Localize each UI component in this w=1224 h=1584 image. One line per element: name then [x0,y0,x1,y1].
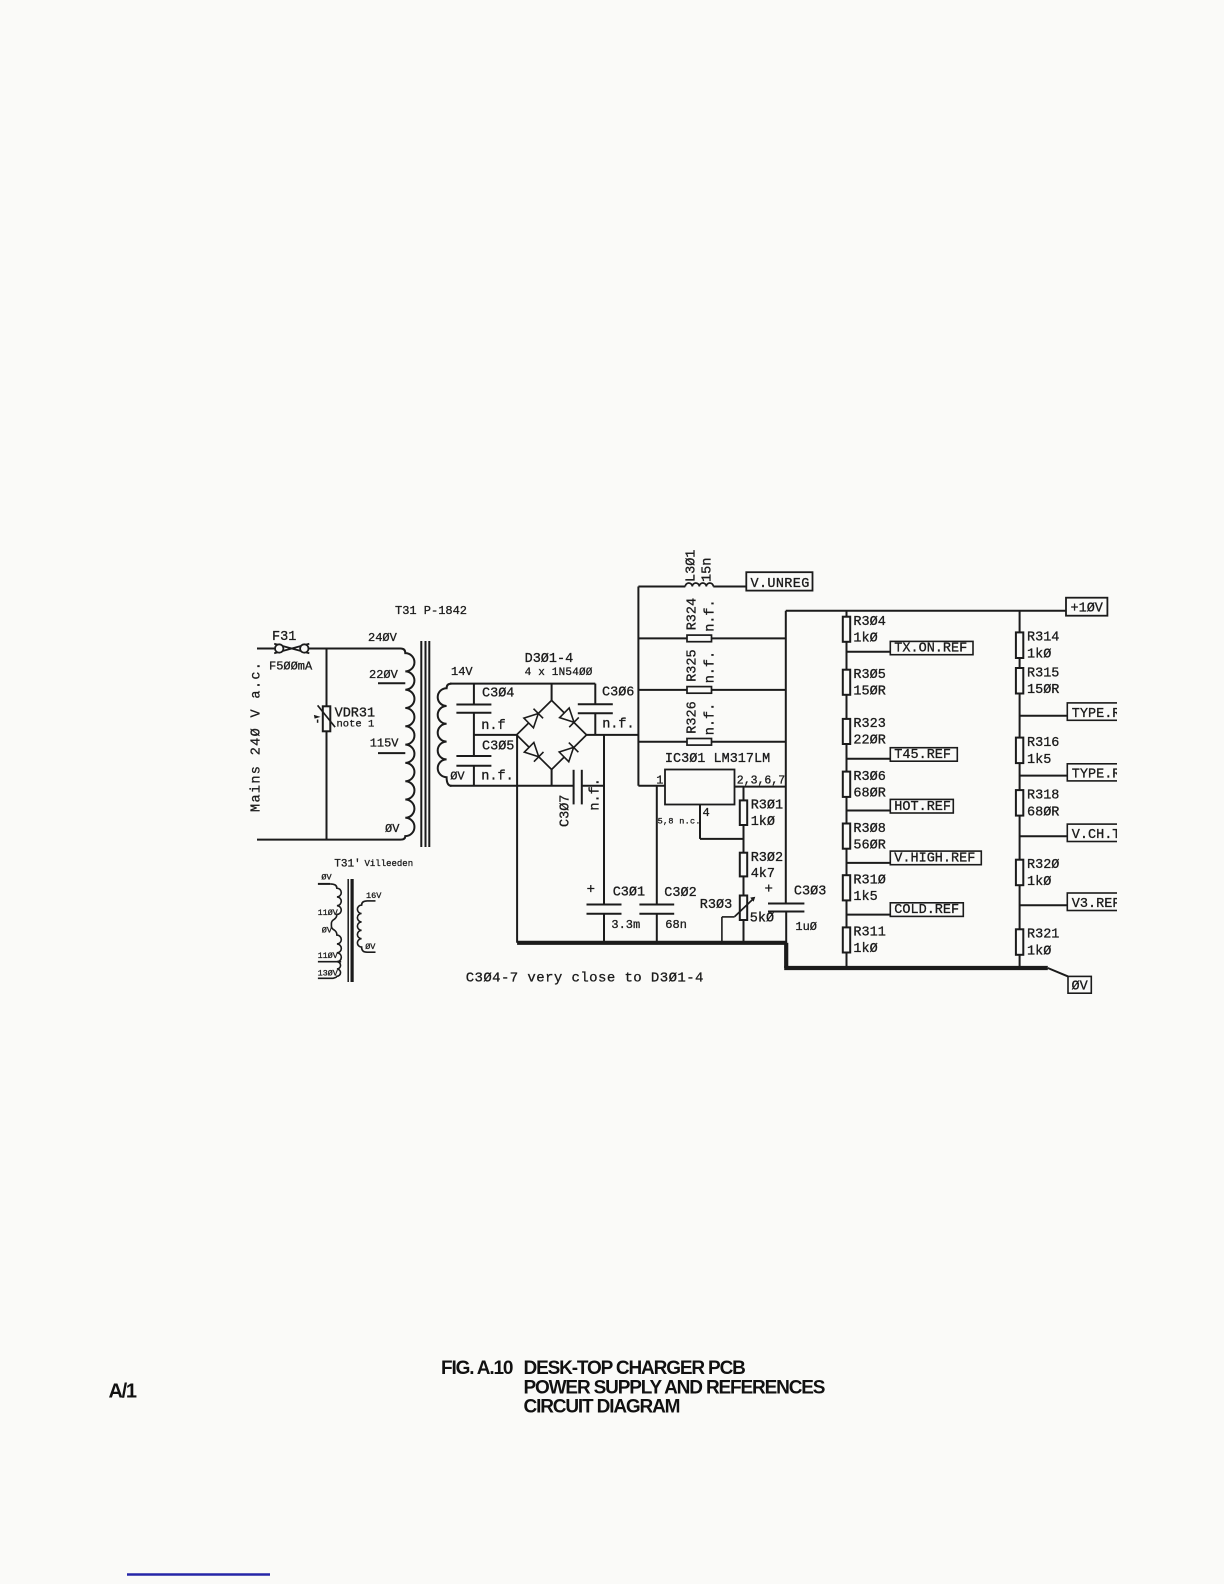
svg-text:+: + [587,882,595,898]
svg-text:D3Ø1-4: D3Ø1-4 [525,652,574,667]
svg-text:1kØ: 1kØ [1027,945,1051,960]
svg-text:n.f.: n.f. [704,599,719,631]
wire C304 branch top [473,684,475,705]
resistor R320 [1016,860,1023,886]
wire VDR branch top [326,649,328,707]
wire to R304 [846,611,848,617]
svg-text:1kØ: 1kØ [751,815,775,830]
wire mid junction to bridge [474,734,517,736]
svg-text:R3Ø2: R3Ø2 [751,851,783,866]
wire tap V.HIGH.REF [847,862,891,864]
svg-text:1kØ: 1kØ [853,632,877,647]
wire ground diagonal [1048,968,1068,976]
svg-text:R3Ø1: R3Ø1 [751,799,783,814]
wire tap T45.REF [847,758,891,760]
wire bridge bottom stub [551,770,553,786]
svg-text:T31 P-1842: T31 P-1842 [395,604,467,618]
wire 0V rail [450,785,574,787]
svg-text:ØV: ØV [385,822,400,836]
svg-text:C3Ø5: C3Ø5 [482,740,514,755]
wire tap V.CH.TYPE tap [1020,835,1068,837]
wire to R310 [846,849,848,876]
svg-text:ØV: ØV [450,770,465,784]
wire R311 bottom [846,953,848,969]
node V.HIGH.REF box [890,851,981,865]
svg-text:11ØV: 11ØV [318,951,338,961]
svg-text:1kØ: 1kØ [853,942,877,957]
svg-text:ØV: ØV [321,873,332,883]
svg-text:R315: R315 [1027,666,1059,681]
svg-text:1k5: 1k5 [1027,753,1051,768]
svg-text:R31Ø: R31Ø [853,874,885,889]
wire to R323 [846,695,848,719]
svg-text:A/1: A/1 [109,1381,137,1403]
wire row R324 right [712,637,786,639]
wire C302 branch [656,786,658,905]
svg-text:13ØV: 13ØV [318,968,338,978]
svg-text:L3Ø1: L3Ø1 [685,550,700,582]
node COLD.REF box [890,903,963,917]
resistor R308 [843,824,850,849]
resistor R325 [687,687,712,694]
svg-text:ØV: ØV [1072,980,1089,995]
capacitor C304 [456,704,491,706]
resistor R326 [687,739,712,746]
svg-text:1: 1 [656,774,663,788]
node TYPE.REF tap 2 box [1067,764,1126,781]
svg-text:F31: F31 [272,630,296,645]
transformer T31 core [420,641,422,847]
capacitor C303 [768,903,804,905]
potentiometer R303 [740,896,747,921]
resistor R323 [843,719,850,744]
svg-text:FIG. A.10: FIG. A.10 [441,1358,513,1379]
wire mains live stub [257,648,275,650]
svg-text:1uØ: 1uØ [795,920,817,934]
wire to R321 [1019,885,1021,929]
svg-text:R3Ø8: R3Ø8 [853,822,885,837]
svg-text:R3Ø4: R3Ø4 [853,615,885,630]
svg-text:T45.REF: T45.REF [894,748,951,763]
svg-text:POWER SUPPLY AND REFERENCES: POWER SUPPLY AND REFERENCES [524,1377,825,1398]
node V.UNREG box [746,572,812,590]
wire unreg vertical [637,587,639,786]
op-amp U IC301 box [665,770,735,805]
svg-text:C3Ø4-7 very close to D3Ø1-4: C3Ø4-7 very close to D3Ø1-4 [466,971,704,987]
wire row R324 left [638,637,687,639]
svg-text:4 x 1N54ØØ: 4 x 1N54ØØ [525,667,593,679]
wire C304-C305 [473,713,475,756]
wire +10V top [786,610,1066,612]
wire to R308 [846,797,848,824]
svg-text:R325: R325 [686,649,701,681]
capacitor C301 [587,904,622,906]
node HOT.REF box [890,799,953,813]
wire to R305 [846,642,848,670]
page crop margin right [1117,0,1224,1584]
wire VDR branch bottom [326,731,328,839]
wire to R318 [1019,763,1021,790]
resistor R315 [1016,668,1023,694]
svg-text:C3Ø1: C3Ø1 [613,886,645,901]
resistor R321 [1016,929,1023,955]
capacitor C302 [639,904,674,906]
wire C301 branch [603,904,605,906]
resistor R301 [740,800,747,825]
wire 115V tap [378,752,405,754]
wire pin1 [638,785,665,787]
svg-text:24ØV: 24ØV [368,631,398,645]
resistor R305 [843,670,850,695]
node V3.REF tap box [1067,893,1126,911]
wire to R320 [1019,816,1021,860]
resistor R310 [843,875,850,900]
wire 14V rail [450,683,595,685]
svg-text:n.f.: n.f. [602,718,634,733]
svg-text:15n: 15n [701,558,716,582]
inductor L301 [638,586,685,588]
wire ground elbow [784,943,788,968]
svg-text:R314: R314 [1027,631,1059,646]
wire R302-R303 [743,876,745,895]
wire tap V3.REF tap [1020,904,1068,906]
transformer T31p core [347,879,349,982]
wire row R326 left [638,741,687,743]
wire to R316 [1019,694,1021,738]
wire R303 bottom [743,920,745,943]
wire 220V tap [378,682,405,684]
wire to R314 [1019,611,1021,633]
svg-text:C3Ø6: C3Ø6 [602,686,634,701]
svg-text:16V: 16V [366,891,382,901]
wire to R311 [846,900,848,927]
svg-text:R321: R321 [1027,928,1059,943]
wire positive node vertical [603,735,605,905]
wire tap HOT.REF [847,810,891,812]
wire row R326 right [712,741,786,743]
svg-text:C3Ø2: C3Ø2 [664,886,696,901]
resistor R314 [1016,632,1023,658]
wire tap TYPE.REF tap 1 [1020,715,1068,717]
wire pin4 stub [699,805,701,839]
transformer T31 primary winding [401,649,415,840]
wire C305 bottom [473,766,475,786]
svg-text:3.3m: 3.3m [611,918,640,932]
diode D303 (bridge bottom-left) [524,742,543,761]
wire tap TX.ON.REF [847,651,891,653]
resistor R316 [1016,738,1023,764]
svg-text:n.f.: n.f. [704,651,719,683]
transformer T31p right winding [367,900,376,902]
svg-text:R316: R316 [1027,736,1059,751]
node TYPE.REF tap 1 box [1067,703,1126,720]
svg-text:5,8 n.c.: 5,8 n.c. [658,816,701,826]
svg-text:R311: R311 [853,926,885,941]
node V.CH.TYPE tap box [1067,824,1126,841]
svg-text:Villeeden: Villeeden [365,859,414,869]
svg-text:22ØV: 22ØV [369,668,399,682]
svg-text:14V: 14V [451,665,473,679]
svg-text:CIRCUIT DIAGRAM: CIRCUIT DIAGRAM [524,1397,680,1418]
wire bridge top stub [551,684,553,701]
wire +10V vertical [785,611,787,904]
diode D302 (bridge top-right) [560,708,579,727]
svg-text:R323: R323 [853,717,885,732]
wire row R325 left [638,689,687,691]
svg-text:R318: R318 [1027,788,1059,803]
wire ground rail upper [517,941,787,945]
svg-text:COLD.REF: COLD.REF [894,903,959,918]
svg-text:note 1: note 1 [337,719,375,731]
svg-text:n.f.: n.f. [481,770,513,785]
resistor R304 [843,617,850,642]
wire ground left vertical [516,735,518,943]
wire mains neutral [257,839,401,841]
svg-text:C3Ø7: C3Ø7 [559,795,574,827]
node 0V box [1068,976,1091,993]
diode D301 (bridge top-left) [524,709,543,728]
wire C307 to node [582,785,604,787]
svg-text:ØV: ØV [365,942,376,952]
svg-text:68n: 68n [665,918,687,932]
svg-text:Mains 24Ø V a.c.: Mains 24Ø V a.c. [250,661,265,812]
transformer T31 secondary winding [438,684,452,786]
svg-text:C3Ø4: C3Ø4 [482,686,514,701]
svg-text:15ØR: 15ØR [853,685,885,700]
wire to R315 [1019,658,1021,668]
wire ground rail lower [784,966,1048,970]
svg-text:68ØR: 68ØR [1027,805,1059,820]
svg-text:ØV: ØV [322,925,333,935]
wire row R325 right [712,689,786,691]
svg-text:4: 4 [703,806,710,820]
resistor R302 [740,853,747,877]
svg-text:V.HIGH.REF: V.HIGH.REF [894,852,975,867]
svg-text:n.f: n.f [481,719,505,734]
svg-text:F5ØØmA: F5ØØmA [269,660,313,674]
svg-text:HOT.REF: HOT.REF [894,800,951,815]
svg-text:R3Ø5: R3Ø5 [853,668,885,683]
svg-text:R3Ø6: R3Ø6 [853,770,885,785]
wire to R306 [846,744,848,772]
wire R301 top [743,787,745,801]
svg-text:V.UNREG: V.UNREG [751,577,810,592]
svg-text:DESK-TOP CHARGER PCB: DESK-TOP CHARGER PCB [524,1358,746,1379]
svg-text:1kØ: 1kØ [1027,648,1051,663]
diode bridge D301-4 diamond [517,700,552,735]
wire bridge right corner [587,734,639,736]
svg-text:T31': T31' [334,858,360,870]
svg-text:11ØV: 11ØV [318,908,338,918]
node TX.ON.REF box [890,641,973,654]
wire tap COLD.REF [847,914,891,916]
resistor R318 [1016,790,1023,816]
node +10V box [1066,598,1107,616]
svg-text:22ØR: 22ØR [853,734,885,749]
svg-text:2,3,6,7: 2,3,6,7 [737,774,785,787]
capacitor C305 [456,755,491,757]
svg-text:TX.ON.REF: TX.ON.REF [894,642,967,657]
wire fuse to transformer [309,648,401,650]
varistor VDR31 [323,706,331,731]
mark blue underline [127,1573,270,1575]
svg-text:5kØ: 5kØ [750,912,774,927]
resistor R324 [687,635,712,642]
svg-text:IC3Ø1 LM317LM: IC3Ø1 LM317LM [665,752,770,767]
wire tap TYPE.REF tap 2 [1020,775,1068,777]
svg-text:115V: 115V [370,737,400,751]
svg-text:4k7: 4k7 [751,867,775,882]
wire R301-R302 [743,825,745,853]
svg-text:C3Ø3: C3Ø3 [794,885,826,900]
svg-text:R32Ø: R32Ø [1027,858,1059,873]
fuse F31 [274,644,309,653]
resistor R306 [843,772,850,797]
svg-text:+1ØV: +1ØV [1071,602,1104,617]
svg-text:1k5: 1k5 [853,890,877,905]
svg-text:56ØR: 56ØR [853,838,885,853]
capacitor C306 [594,684,596,705]
svg-text:+: + [765,882,773,898]
transformer T31p left winding [318,883,330,885]
svg-text:n.f.: n.f. [589,778,604,810]
svg-text:R326: R326 [686,701,701,733]
svg-text:68ØR: 68ØR [853,787,885,802]
svg-text:R3Ø3: R3Ø3 [700,898,732,913]
resistor R311 [843,927,850,952]
diode D304 (bridge bottom-right) [559,743,578,762]
svg-text:V3.REF: V3.REF [1072,897,1121,912]
svg-text:R324: R324 [686,598,701,630]
svg-text:15ØR: 15ØR [1027,683,1059,698]
wire output row [735,786,786,788]
capacitor C307 [573,770,575,805]
wire R321 bottom [1019,955,1021,968]
svg-text:1kØ: 1kØ [1027,875,1051,890]
node T45.REF box [890,748,957,762]
svg-text:n.f.: n.f. [704,703,719,735]
